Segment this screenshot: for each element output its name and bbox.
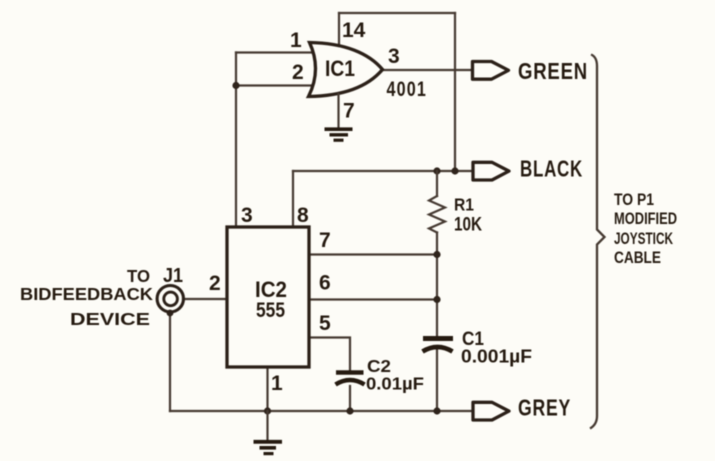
wire bottom bus <box>170 410 473 412</box>
wire C1 bottom lead <box>436 350 438 411</box>
node junction C2 bottom <box>346 407 353 414</box>
resistor R1 <box>429 196 445 233</box>
wire J1 down leg <box>169 313 171 411</box>
node junction pin7 <box>433 251 440 258</box>
node junction J1 bottom <box>167 310 174 317</box>
wire riser from IC2 pin3 up to IC1 pin1 <box>235 53 237 228</box>
svg-text:6: 6 <box>319 272 331 295</box>
wire IC1 pin7 ground stub <box>337 94 339 127</box>
wire C2 bottom lead <box>349 386 351 411</box>
arrow GREY <box>473 402 509 420</box>
svg-text:10K: 10K <box>454 215 482 236</box>
svg-text:CABLE: CABLE <box>614 248 661 267</box>
svg-text:1: 1 <box>271 372 283 395</box>
arrow BLACK <box>473 162 509 180</box>
wire IC2 pin7 <box>309 253 437 255</box>
svg-text:J1: J1 <box>163 265 183 287</box>
IC2 555 body <box>227 227 309 367</box>
wire R1 top lead <box>436 171 438 196</box>
svg-text:BLACK: BLACK <box>520 156 583 182</box>
svg-text:5: 5 <box>319 312 331 335</box>
wire pin8 vertical <box>292 171 294 227</box>
svg-text:555: 555 <box>256 299 285 322</box>
svg-text:IC1: IC1 <box>325 56 355 81</box>
ground IC1 <box>325 129 353 140</box>
capacitor C1 <box>423 339 454 352</box>
svg-text:8: 8 <box>297 204 309 227</box>
svg-text:3: 3 <box>241 204 253 227</box>
svg-text:0.01µF: 0.01µF <box>366 374 424 394</box>
brace to cable <box>590 55 605 429</box>
wire J1 to IC2 pin2 <box>183 298 227 300</box>
svg-text:BIDFEEDBACK: BIDFEEDBACK <box>20 284 153 304</box>
svg-text:0.001µF: 0.001µF <box>461 347 532 367</box>
wire IC1 pin14 stub <box>338 13 340 46</box>
node junction pin1/ground <box>264 407 271 414</box>
capacitor C2 <box>336 373 365 385</box>
wire BLACK horizontal <box>293 170 473 172</box>
wire IC1 pin1 <box>236 51 313 53</box>
op-amp U1 gate body IC1 <box>309 43 383 97</box>
svg-text:7: 7 <box>319 229 331 252</box>
wire R1 bottom lead <box>436 233 438 336</box>
svg-text:2: 2 <box>292 61 304 84</box>
svg-text:3: 3 <box>388 45 400 68</box>
wire IC2 pin1 stub <box>266 367 268 411</box>
node junction power drop <box>451 167 458 174</box>
svg-text:4001: 4001 <box>387 78 428 101</box>
svg-text:TO P1: TO P1 <box>614 190 654 209</box>
wire top power rail <box>339 12 455 14</box>
wire IC2 pin6 <box>309 298 437 300</box>
svg-text:2: 2 <box>209 272 221 295</box>
svg-text:1: 1 <box>290 29 302 52</box>
ground main <box>266 411 268 440</box>
svg-text:MODIFIED: MODIFIED <box>614 209 677 228</box>
arrow GREEN <box>473 62 509 80</box>
wire IC1 pin3 output to GREEN <box>382 69 473 71</box>
wire power rail vertical drop <box>454 13 456 171</box>
connector J1 <box>157 286 183 312</box>
svg-text:DEVICE: DEVICE <box>70 309 150 329</box>
svg-text:R1: R1 <box>454 195 474 215</box>
node junction pin6 <box>433 296 440 303</box>
node junction riser/pin2 <box>232 82 239 89</box>
wire IC2 pin5 to C2 <box>309 338 350 372</box>
svg-text:7: 7 <box>343 100 355 123</box>
svg-text:JOYSTICK: JOYSTICK <box>614 229 673 248</box>
node junction R1 top <box>433 167 440 174</box>
node junction C1 bottom <box>433 407 440 414</box>
svg-text:GREEN: GREEN <box>518 58 588 84</box>
wire IC1 pin2 <box>236 84 312 86</box>
svg-text:14: 14 <box>342 19 366 42</box>
svg-text:TO: TO <box>127 266 150 286</box>
svg-text:GREY: GREY <box>518 395 571 421</box>
